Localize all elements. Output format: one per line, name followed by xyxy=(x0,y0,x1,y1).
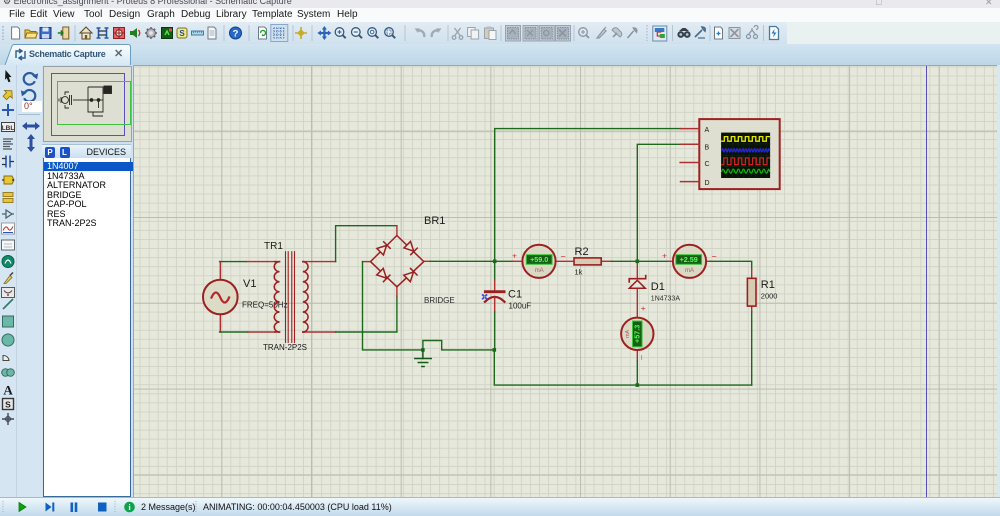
svg-text:1k: 1k xyxy=(575,268,583,277)
svg-text:S: S xyxy=(5,400,11,410)
scope trace channel D xyxy=(722,169,770,173)
svg-text:1N4733A: 1N4733A xyxy=(651,296,681,303)
devices header xyxy=(42,144,131,159)
svg-text:A: A xyxy=(705,127,710,134)
svg-text:R2: R2 xyxy=(575,246,589,258)
transformer TR1 secondary winding xyxy=(303,262,308,332)
sheet border line xyxy=(926,66,927,497)
svg-text:+2.59: +2.59 xyxy=(680,255,698,264)
wire ammeter2 to R1 top xyxy=(705,261,752,278)
svg-text:+57.3: +57.3 xyxy=(633,325,642,343)
svg-text:mA: mA xyxy=(535,268,544,274)
svg-text:R1: R1 xyxy=(761,279,775,291)
wire node B to scope channel B xyxy=(637,144,680,261)
svg-text:S: S xyxy=(179,29,185,38)
wire ground rail notch to C1 bottom xyxy=(423,341,494,350)
transformer TR1 core xyxy=(286,252,295,343)
capacitor C1 xyxy=(485,261,505,349)
svg-text:BRIDGE: BRIDGE xyxy=(424,296,455,305)
toolbar xyxy=(0,22,1000,44)
svg-text:LBL: LBL xyxy=(2,125,15,132)
svg-text:FREQ=50Hz: FREQ=50Hz xyxy=(242,301,288,310)
svg-text:C: C xyxy=(705,161,710,168)
circuit svg xyxy=(133,65,996,497)
resistor R1 xyxy=(747,278,756,306)
left sidebar background xyxy=(0,65,42,497)
schematic viewport xyxy=(133,65,997,498)
svg-text:+: + xyxy=(512,251,517,261)
ammeter M1 xyxy=(522,245,555,278)
ammeter M2 xyxy=(673,245,706,278)
tab bar xyxy=(0,44,1000,65)
C1 polarity plus marker xyxy=(481,293,488,300)
transformer TR1 primary winding xyxy=(274,262,279,332)
svg-text:TR1: TR1 xyxy=(264,241,283,252)
resistor R2 xyxy=(574,258,601,265)
svg-text:D1: D1 xyxy=(651,281,665,293)
svg-text:A: A xyxy=(3,383,13,398)
wire TR1 secondary top to bridge AC1 xyxy=(304,226,397,262)
wire meter M2 to bottom rail xyxy=(636,350,638,385)
preview panel xyxy=(43,66,132,142)
wire R1 bottom to rail xyxy=(751,306,753,385)
ground junction xyxy=(421,348,425,352)
title bar (cropped) xyxy=(0,0,1000,8)
svg-text:100uF: 100uF xyxy=(509,302,532,311)
rotate controls xyxy=(20,70,42,154)
oscilloscope U1 xyxy=(699,119,779,189)
svg-text:2000: 2000 xyxy=(761,292,778,301)
svg-text:−: − xyxy=(561,252,566,262)
wire V1 top to TR1 primary top xyxy=(220,262,275,280)
device list xyxy=(43,158,131,497)
svg-text:BR1: BR1 xyxy=(424,215,445,227)
svg-text:V1: V1 xyxy=(243,278,256,290)
svg-text:?: ? xyxy=(233,29,239,40)
svg-text:−: − xyxy=(712,252,717,262)
svg-text:mA: mA xyxy=(625,329,631,338)
menu bar xyxy=(0,8,1000,22)
scope trace channel C xyxy=(722,158,770,165)
wire V1 bottom to TR1 primary bottom xyxy=(220,315,275,333)
right edge strip xyxy=(997,65,1000,497)
wire node B to D1 xyxy=(636,261,638,277)
svg-text:+: + xyxy=(641,303,646,313)
scope pin A xyxy=(681,128,700,130)
wire D1 to meter M2 xyxy=(636,288,638,318)
svg-text:C1: C1 xyxy=(508,289,522,301)
wire TR1 secondary bottom to bridge AC2 xyxy=(304,287,397,332)
scope pin D xyxy=(681,181,700,183)
ammeter M3 vertical xyxy=(621,318,653,350)
svg-text:+59.0: +59.0 xyxy=(530,255,548,264)
wire ammeter minus to R2 xyxy=(555,260,574,262)
D1 branch bottom junction xyxy=(636,383,640,387)
scope trace channel B xyxy=(722,149,770,152)
svg-text:I: I xyxy=(641,355,643,362)
wire R2 to node B xyxy=(601,260,672,262)
scope trace channel A xyxy=(722,137,770,142)
ground xyxy=(415,350,431,367)
scope pin B xyxy=(681,143,700,145)
wire bridge positive to node A xyxy=(424,260,495,262)
bridge rectifier BR1 xyxy=(371,236,424,287)
zener diode D1 xyxy=(629,276,646,289)
node A junction xyxy=(493,260,497,264)
wire node A to ammeter plus xyxy=(495,260,523,262)
alternator V1 xyxy=(203,280,238,315)
status bar xyxy=(0,497,1000,516)
svg-text:mA: mA xyxy=(685,268,694,274)
wire node A to scope channel A xyxy=(495,129,681,262)
scope pin C xyxy=(680,162,699,164)
wire bridge negative to ground rail xyxy=(363,262,423,350)
node B junction xyxy=(636,260,640,264)
svg-text:+: + xyxy=(662,251,667,261)
C1 bottom junction xyxy=(493,348,497,352)
device panel area xyxy=(42,65,133,497)
svg-text:TRAN-2P2S: TRAN-2P2S xyxy=(263,343,307,352)
svg-text:D: D xyxy=(705,180,710,187)
wire bottom rail xyxy=(494,350,751,385)
svg-text:B: B xyxy=(705,145,710,152)
